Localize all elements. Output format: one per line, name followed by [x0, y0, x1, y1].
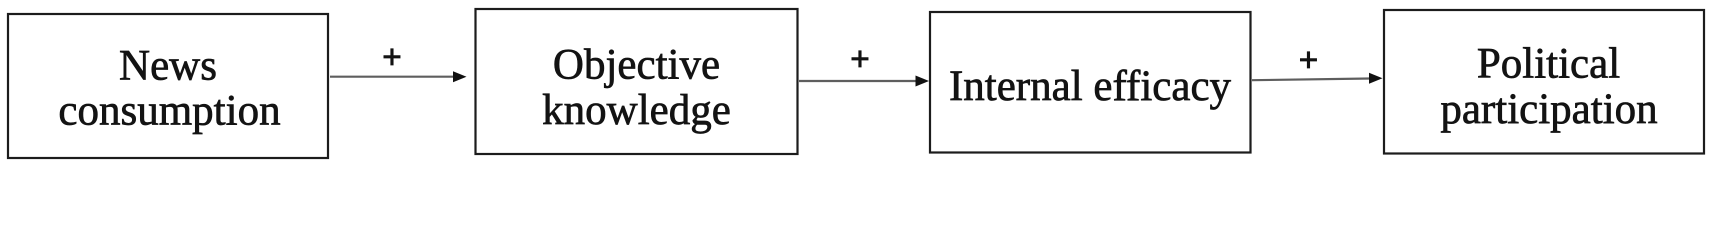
svg-text:consumption: consumption — [58, 88, 280, 135]
svg-text:participation: participation — [1440, 86, 1657, 133]
svg-text:+: + — [850, 39, 870, 78]
box: Internal efficacy — [930, 12, 1251, 153]
svg-text:+: + — [1299, 41, 1319, 80]
wire: arrow News->Objective — [330, 76, 455, 78]
box: Political participation — [1384, 10, 1704, 154]
wire: arrow Internal->Political — [1252, 79, 1370, 81]
box: News consumption — [8, 14, 328, 158]
svg-text:Objective: Objective — [553, 42, 720, 89]
svg-text:knowledge: knowledge — [542, 87, 731, 134]
svg-text:+: + — [382, 37, 402, 76]
box: Objective knowledge — [476, 9, 798, 154]
svg-text:News: News — [119, 43, 217, 90]
wire: arrow Objective->Internal — [799, 80, 917, 82]
svg-text:Political: Political — [1477, 40, 1620, 87]
svg-text:Internal efficacy: Internal efficacy — [949, 63, 1232, 110]
